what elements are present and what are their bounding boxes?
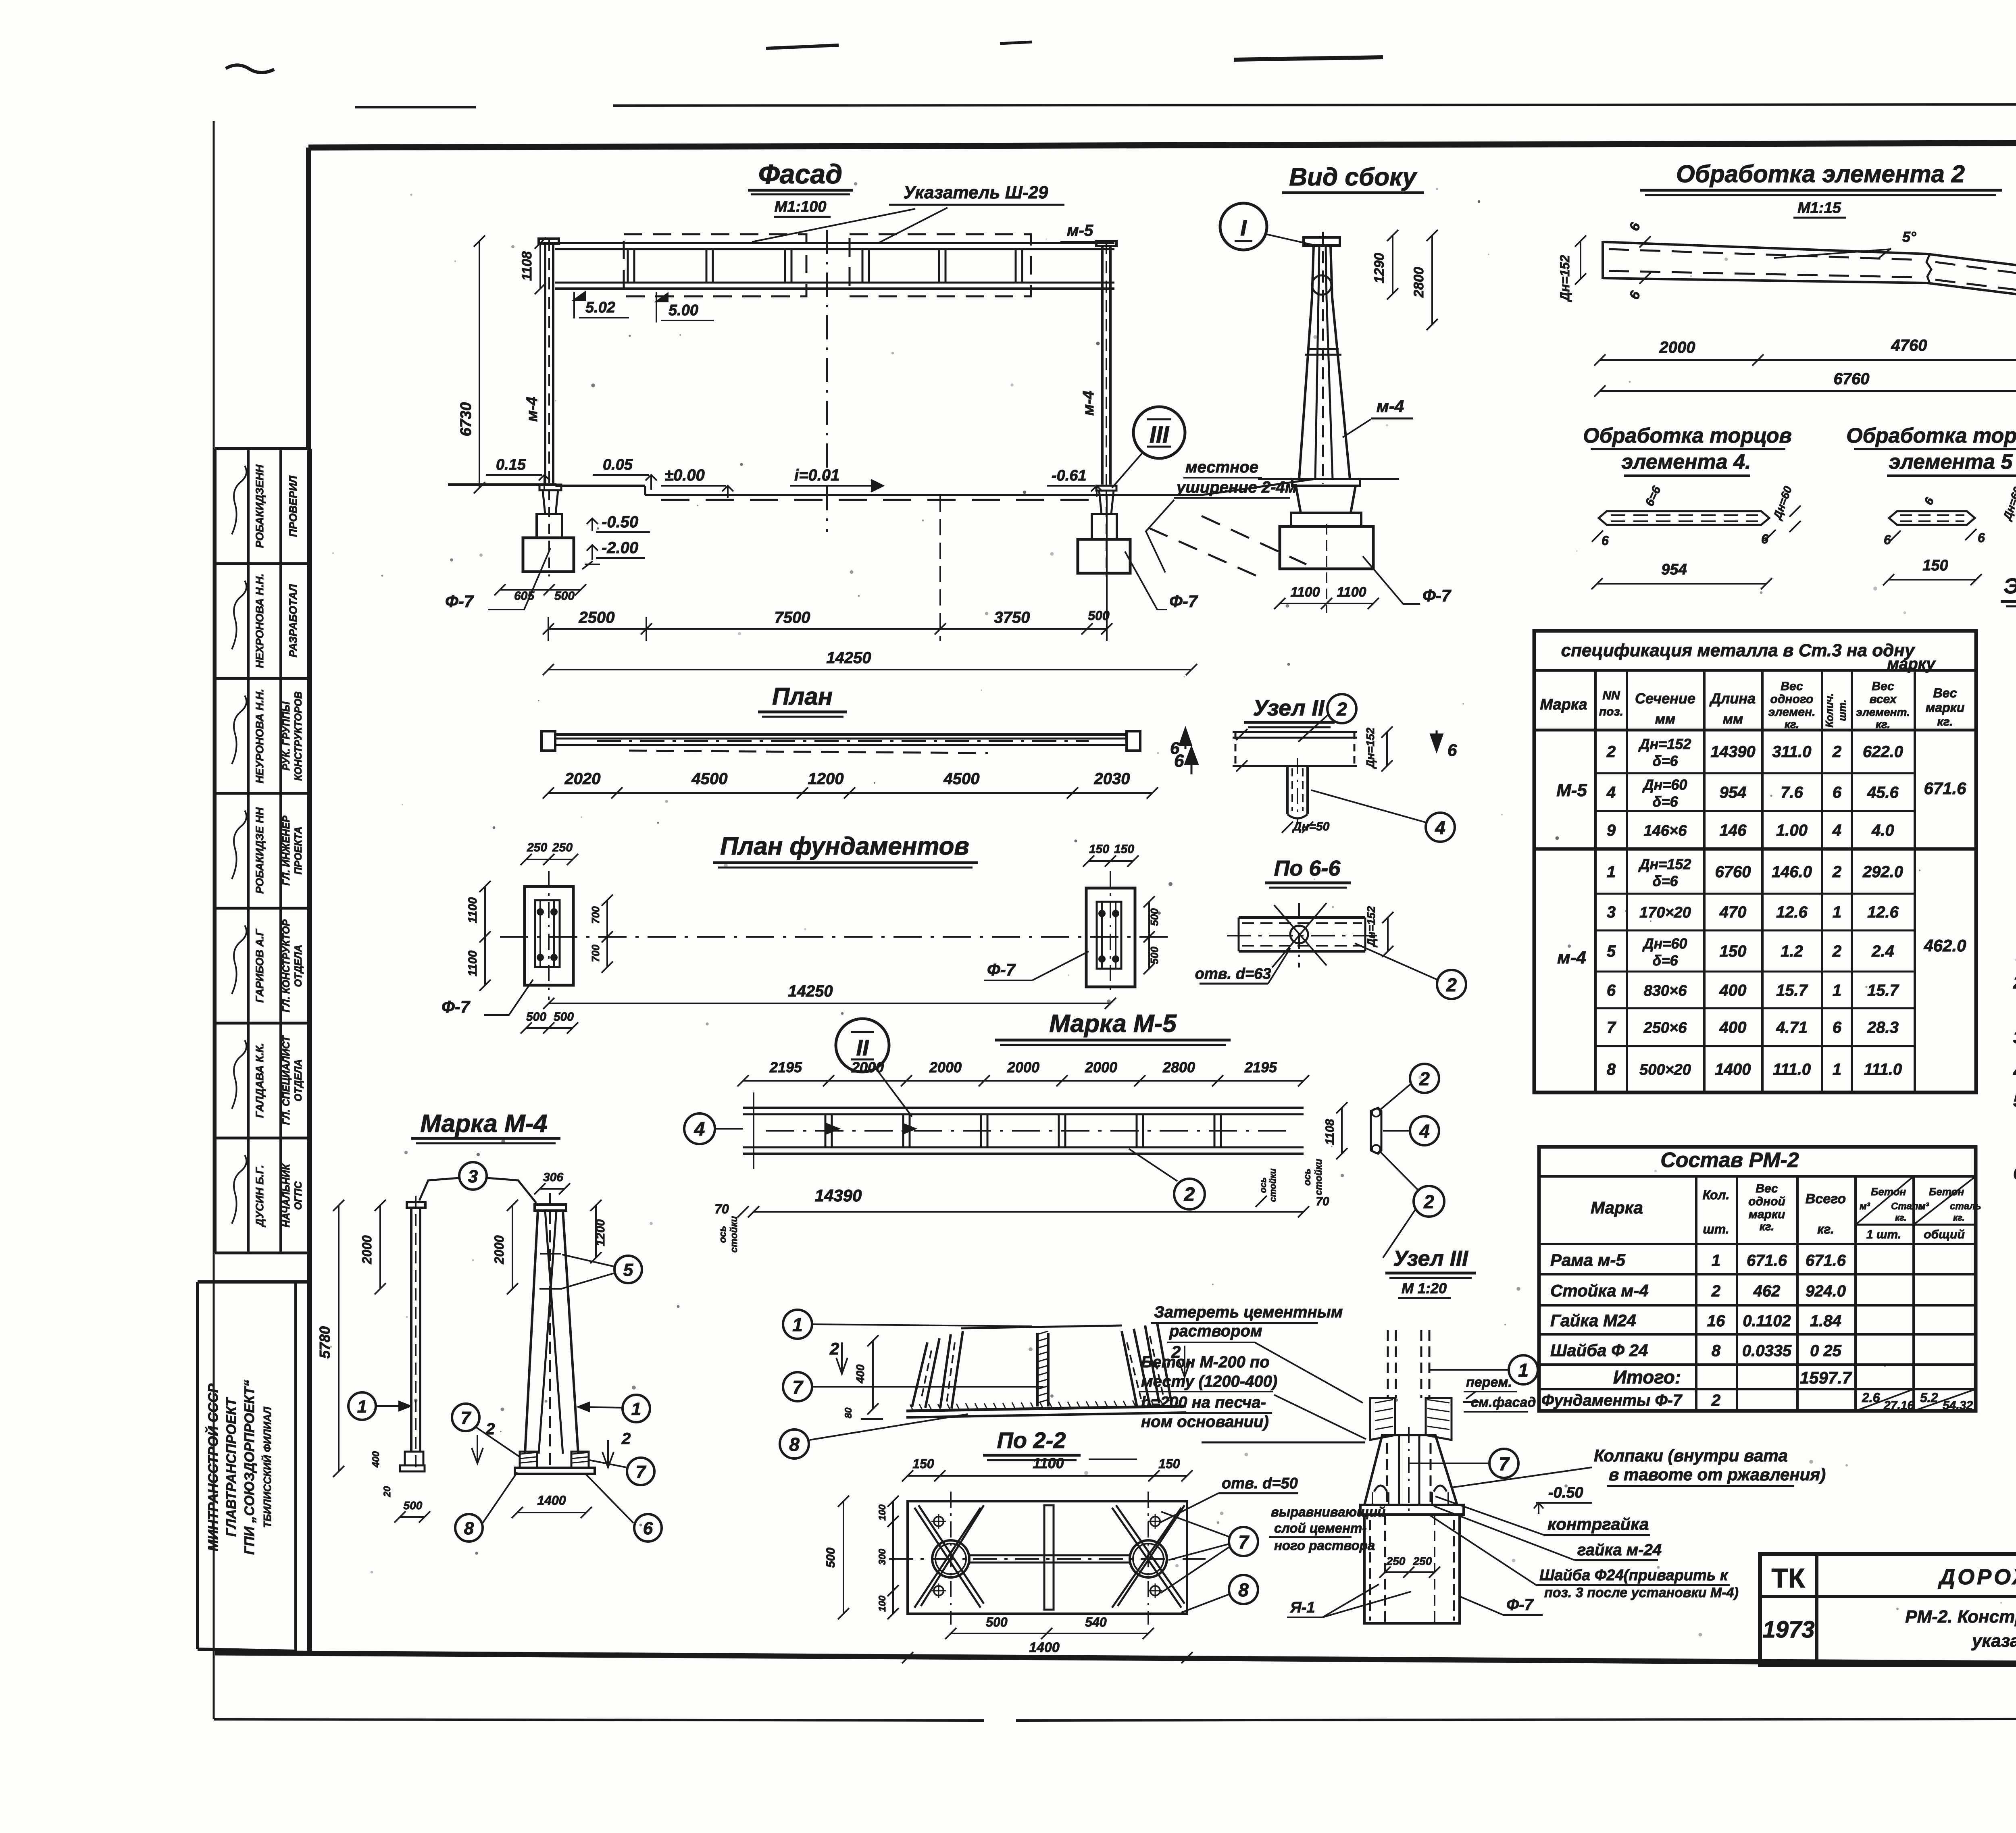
svg-text:8: 8: [789, 1434, 800, 1455]
facade dim row 2500 7500 3750 500: [548, 628, 1107, 630]
dims 700 700: [606, 900, 608, 967]
узел II stem tube: [1286, 766, 1289, 814]
svg-text:300: 300: [877, 1548, 888, 1565]
svg-text:0.15: 0.15: [496, 456, 526, 473]
svg-text:Дн=152: Дн=152: [1638, 856, 1691, 872]
svg-text:16: 16: [1707, 1312, 1725, 1330]
svg-text:Вес: Вес: [1756, 1182, 1778, 1195]
svg-text:500: 500: [554, 589, 575, 603]
dim 1290: [1392, 235, 1393, 294]
svg-text:Фасад: Фасад: [758, 159, 843, 189]
svg-text:δ=6: δ=6: [1652, 952, 1678, 969]
TITLE BLOCK: [1760, 1554, 2016, 1665]
svg-text:Всего: Всего: [1806, 1191, 1846, 1207]
level mark 5.02: [574, 292, 585, 318]
svg-text:ГЛ. КОНСТРУКТОР: ГЛ. КОНСТРУКТОР: [281, 919, 292, 1012]
svg-text:выравнивающий: выравнивающий: [1271, 1504, 1385, 1519]
diagonals X right: [1112, 1508, 1181, 1608]
svg-text:6: 6: [643, 1519, 653, 1538]
svg-text:Вид сбоку: Вид сбоку: [1289, 163, 1418, 191]
М-4 top node (anchor block elevation): [912, 1338, 939, 1408]
svg-text:-0.61: -0.61: [1052, 467, 1087, 484]
svg-text:8: 8: [1238, 1579, 1249, 1600]
svg-text:4: 4: [1435, 817, 1445, 838]
svg-text:ТБИЛИССКИЙ ФИЛИАЛ: ТБИЛИССКИЙ ФИЛИАЛ: [261, 1406, 273, 1528]
svg-text:Я-1: Я-1: [1290, 1599, 1315, 1616]
svg-text:в тавоте от ржавления): в тавоте от ржавления): [1609, 1465, 1826, 1484]
svg-text:14250: 14250: [788, 982, 833, 1000]
svg-text:100: 100: [877, 1504, 888, 1521]
svg-text:1973: 1973: [1762, 1617, 1814, 1643]
М-4 single post (поз 1): [407, 1202, 425, 1208]
svg-text:6: 6: [1602, 533, 1609, 548]
svg-text:мм: мм: [1723, 712, 1743, 727]
svg-text:1100: 1100: [466, 950, 479, 976]
svg-text:2: 2: [829, 1339, 839, 1358]
svg-text:1100: 1100: [1290, 585, 1320, 600]
svg-text:5780: 5780: [317, 1326, 333, 1359]
svg-text:НЕХРОНОВА Н.Н.: НЕХРОНОВА Н.Н.: [254, 574, 266, 668]
svg-text:ось: ось: [1258, 1178, 1268, 1193]
svg-text:ось: ось: [1302, 1169, 1313, 1186]
svg-text:150: 150: [1720, 943, 1747, 960]
svg-text:671.6: 671.6: [1806, 1252, 1846, 1269]
circled 2 below: [1174, 1179, 1205, 1209]
svg-text:2. Сварку элементов производ: 2. Сварку элементов производить: [2013, 973, 2016, 992]
svg-text:0 25: 0 25: [1810, 1342, 1842, 1360]
circled 4 left: [684, 1113, 715, 1144]
svg-text:954: 954: [1720, 784, 1747, 801]
circled 8 right: [1229, 1575, 1258, 1604]
svg-text:250: 250: [1386, 1555, 1406, 1567]
svg-text:Дн=152: Дн=152: [1638, 736, 1691, 752]
svg-text:2800: 2800: [1411, 267, 1427, 298]
svg-text:кг.: кг.: [1937, 715, 1953, 728]
svg-text:ГПИ „СОЮЗДОРПРОЕКТ“: ГПИ „СОЮЗДОРПРОЕКТ“: [242, 1380, 257, 1555]
svg-text:2000: 2000: [929, 1059, 962, 1076]
svg-text:кг.: кг.: [1785, 718, 1799, 730]
svg-text:2500: 2500: [579, 609, 615, 626]
dim 2000 middle: [512, 1205, 513, 1289]
base plate: [1360, 1505, 1464, 1515]
circled 7 right: [627, 1458, 654, 1485]
svg-text:27.16: 27.16: [1883, 1399, 1914, 1412]
узел II plate: [1233, 731, 1357, 733]
svg-text:2: 2: [1711, 1282, 1720, 1300]
middle vertical bar: [1044, 1505, 1054, 1610]
node mark III: [1133, 407, 1185, 458]
svg-text:7: 7: [792, 1377, 804, 1398]
svg-text:2: 2: [1336, 699, 1347, 720]
svg-text:5: 5: [623, 1260, 633, 1280]
svg-text:указательных знаков.: указательных знаков.: [1971, 1631, 2016, 1651]
svg-text:2030: 2030: [1094, 770, 1130, 788]
svg-text:500: 500: [824, 1548, 837, 1568]
svg-text:5.00: 5.00: [669, 302, 698, 319]
circled 7: [1489, 1449, 1518, 1478]
dims 100 300 100: [892, 1501, 894, 1614]
svg-text:170×20: 170×20: [1639, 904, 1691, 921]
svg-text:1: 1: [792, 1314, 803, 1335]
svg-text:Колпаки (внутри вата: Колпаки (внутри вата: [1594, 1446, 1788, 1465]
svg-text:МИНТРАНССТРОЙ СССР: МИНТРАНССТРОЙ СССР: [205, 1384, 221, 1551]
svg-text:2: 2: [1171, 1342, 1181, 1361]
svg-text:ГЛ. СПЕЦИАЛИСТ: ГЛ. СПЕЦИАЛИСТ: [281, 1035, 292, 1125]
svg-text:см.фасад: см.фасад: [1471, 1395, 1536, 1410]
element 4 bar: [1599, 511, 1769, 525]
svg-text:2: 2: [1832, 743, 1841, 761]
anchor blocks & base plate: [520, 1452, 537, 1468]
dim 1200 right: [595, 1205, 597, 1258]
svg-text:КОНСТРУКТОРОВ: КОНСТРУКТОРОВ: [293, 691, 304, 781]
svg-text:Ф-7: Ф-7: [445, 592, 474, 611]
svg-text:Стойка м-4: Стойка м-4: [1550, 1281, 1649, 1300]
svg-text:1: 1: [1833, 903, 1841, 921]
svg-text:605: 605: [514, 589, 535, 603]
svg-text:м³: м³: [1918, 1201, 1929, 1212]
М-5 dim row 2195 2000x5 2195: [743, 1080, 1304, 1082]
left foundation plan: [525, 886, 573, 985]
svg-text:ГЛ. ИНЖЕНЕР: ГЛ. ИНЖЕНЕР: [281, 816, 292, 886]
dim 250 250 in pedestal: [1385, 1571, 1435, 1573]
svg-text:1: 1: [357, 1397, 367, 1417]
svg-text:306: 306: [543, 1171, 563, 1184]
svg-text:δ=6: δ=6: [1652, 793, 1678, 810]
svg-text:6: 6: [1447, 741, 1457, 759]
svg-text:1: 1: [1607, 863, 1616, 881]
svg-text:3: 3: [1607, 903, 1616, 921]
facade right column М-4: [1101, 246, 1104, 485]
anchor plates hatched: [1370, 1398, 1395, 1440]
svg-text:2000: 2000: [1085, 1059, 1117, 1076]
svg-text:7500: 7500: [775, 609, 810, 626]
svg-text:ОТДЕЛА: ОТДЕЛА: [293, 945, 304, 987]
svg-text:2800: 2800: [1162, 1059, 1195, 1076]
svg-text:500: 500: [1148, 908, 1160, 926]
svg-text:80: 80: [843, 1407, 854, 1418]
svg-text:элемен.: элемен.: [1768, 705, 1816, 719]
svg-text:м³: м³: [1860, 1201, 1870, 1212]
svg-text:500: 500: [554, 1010, 574, 1024]
svg-text:1290: 1290: [1372, 253, 1387, 283]
svg-text:План фундаментов: План фундаментов: [720, 832, 969, 860]
svg-text:II: II: [856, 1035, 869, 1060]
svg-text:кг.: кг.: [1876, 718, 1891, 730]
svg-text:Шайба Ф24(приварить к: Шайба Ф24(приварить к: [1539, 1567, 1729, 1584]
svg-text:1.00: 1.00: [1776, 822, 1808, 839]
svg-text:Бетон М-200 по: Бетон М-200 по: [1141, 1353, 1270, 1371]
svg-text:924.0: 924.0: [1806, 1282, 1846, 1300]
по 6-6 tube: [1239, 916, 1365, 919]
svg-text:5.02: 5.02: [585, 299, 615, 316]
svg-text:стойки: стойки: [729, 1216, 739, 1253]
svg-text:150: 150: [1922, 557, 1948, 574]
stamp block (left title column): [215, 447, 310, 450]
svg-text:470: 470: [1719, 903, 1747, 921]
svg-text:150: 150: [1114, 843, 1134, 856]
centerlines: [889, 1558, 1206, 1560]
svg-text:2000: 2000: [360, 1235, 374, 1264]
svg-text:1 шт.: 1 шт.: [1866, 1228, 1901, 1241]
svg-text:Узел III: Узел III: [1393, 1246, 1468, 1271]
dim 14250 foundation plan: [549, 1003, 1110, 1004]
svg-text:стойки: стойки: [1313, 1159, 1324, 1195]
svg-text:4760: 4760: [1891, 337, 1927, 354]
СОСТАВ РМ-2 TABLE: [1539, 1147, 1976, 1411]
org block МИНТРАНССТРОЙ: [198, 1280, 310, 1284]
svg-text:250: 250: [527, 841, 547, 854]
svg-text:622.0: 622.0: [1863, 743, 1903, 761]
svg-text:4500: 4500: [691, 770, 728, 788]
level -2.00: [587, 545, 598, 560]
svg-text:1400: 1400: [1029, 1640, 1060, 1655]
bolt holes: [934, 1517, 943, 1526]
svg-text:одного: одного: [1770, 693, 1814, 706]
circled 8: [455, 1514, 483, 1542]
element 4 capsule right of beam: [1371, 1108, 1381, 1154]
svg-text:элемент.: элемент.: [1856, 706, 1910, 718]
svg-text:54.32: 54.32: [1943, 1399, 1973, 1412]
svg-text:6760: 6760: [1715, 863, 1751, 881]
dim 500: [400, 1516, 425, 1518]
node mark II: [836, 1019, 889, 1072]
svg-text:146×6: 146×6: [1644, 822, 1687, 839]
svg-text:1400: 1400: [537, 1493, 566, 1508]
facade beam М-5 truss: [555, 242, 1114, 244]
svg-text:1: 1: [1833, 982, 1841, 999]
svg-text:м-5: м-5: [1067, 222, 1093, 239]
svg-text:Марка М-4: Марка М-4: [420, 1110, 547, 1138]
dims 500 500 below: [526, 1027, 573, 1029]
svg-text:Бетон: Бетон: [1929, 1186, 1964, 1198]
pedestal: [1364, 1515, 1460, 1623]
circled 7 right: [1229, 1527, 1258, 1556]
svg-text:стойки: стойки: [1268, 1168, 1278, 1202]
svg-text:250×6: 250×6: [1643, 1019, 1687, 1036]
svg-text:100: 100: [877, 1595, 888, 1612]
svg-text:Ф-7: Ф-7: [1422, 586, 1452, 605]
svg-text:РОБАКИДЗЕНН: РОБАКИДЗЕНН: [254, 464, 266, 548]
dim 6730: [479, 241, 480, 488]
svg-text:ОТДЕЛА: ОТДЕЛА: [293, 1059, 304, 1102]
svg-text:500: 500: [986, 1615, 1008, 1629]
svg-text:Длина: Длина: [1709, 690, 1756, 707]
svg-text:Бетон: Бетон: [1871, 1186, 1906, 1198]
svg-text:146.0: 146.0: [1772, 863, 1812, 881]
svg-text:7.6: 7.6: [1781, 784, 1803, 801]
svg-text:Марка: Марка: [1591, 1198, 1643, 1217]
svg-text:м-4: м-4: [524, 397, 541, 422]
level mark 5.00: [656, 292, 668, 322]
svg-text:ГЛАВТРАНСПРОЕКТ: ГЛАВТРАНСПРОЕКТ: [224, 1397, 239, 1537]
svg-text:Элемент 9: Элемент 9: [2004, 574, 2016, 598]
svg-text:6760: 6760: [1834, 370, 1870, 388]
svg-text:ГАЛДАВА К.К.: ГАЛДАВА К.К.: [254, 1043, 266, 1118]
svg-text:контргайка: контргайка: [1547, 1515, 1649, 1533]
svg-text:спецификация металла в Ст.3 на: спецификация металла в Ст.3 на одну: [1561, 641, 1916, 660]
svg-text:РАЗРАБОТАЛ: РАЗРАБОТАЛ: [287, 584, 299, 657]
leg inner crossing left: [539, 1211, 556, 1454]
svg-text:Дн=152: Дн=152: [1364, 727, 1377, 769]
svg-text:м-4: м-4: [1557, 948, 1586, 967]
svg-text:150: 150: [912, 1456, 934, 1471]
svg-text:7: 7: [1238, 1531, 1250, 1552]
svg-text:По 2-2: По 2-2: [997, 1427, 1066, 1453]
svg-text:3750: 3750: [994, 609, 1030, 626]
svg-text:Дн=60: Дн=60: [1642, 935, 1687, 952]
svg-text:14250: 14250: [826, 649, 871, 667]
dim 2800: [1431, 235, 1433, 325]
svg-text:III: III: [1150, 422, 1170, 448]
svg-text:ПРОВЕРИЛ: ПРОВЕРИЛ: [287, 475, 299, 537]
svg-text:ГАРИБОВ А.Г: ГАРИБОВ А.Г: [254, 928, 266, 1003]
svg-text:ном основании): ном основании): [1141, 1413, 1269, 1431]
svg-text:Состав РМ-2: Состав РМ-2: [1660, 1148, 1799, 1172]
dim 1100 1100 under side foundation: [1280, 603, 1373, 604]
svg-text:гайка м-24: гайка м-24: [1577, 1541, 1662, 1559]
svg-text:По 6-6: По 6-6: [1274, 856, 1341, 880]
svg-text:2000: 2000: [1659, 339, 1695, 356]
svg-text:ПРОЕКТА: ПРОЕКТА: [293, 827, 304, 875]
svg-text:мм: мм: [1655, 712, 1675, 727]
sign board 1 (dashed): [624, 234, 806, 296]
svg-text:292.0: 292.0: [1862, 863, 1903, 881]
facade dim 14250: [548, 669, 1191, 670]
svg-text:местное: местное: [1185, 458, 1258, 476]
dim 5780: [338, 1205, 339, 1471]
svg-text:ДУСИН Б.Г.: ДУСИН Б.Г.: [254, 1165, 266, 1228]
circled 2: [1327, 694, 1356, 723]
М-4 tapered column (front): [535, 1205, 566, 1211]
svg-text:8: 8: [1607, 1061, 1616, 1078]
svg-text:1.84: 1.84: [1810, 1312, 1841, 1330]
svg-text:2: 2: [1832, 943, 1841, 960]
svg-text:4: 4: [1832, 822, 1841, 839]
svg-text:1: 1: [1518, 1360, 1529, 1381]
leg inner crossing right: [545, 1211, 563, 1454]
svg-text:6: 6: [1607, 982, 1616, 999]
svg-text:462: 462: [1753, 1282, 1781, 1300]
узел III anchor bolts: [1387, 1330, 1389, 1398]
svg-text:400: 400: [1719, 1019, 1747, 1036]
svg-text:500: 500: [404, 1499, 423, 1512]
svg-text:1: 1: [631, 1399, 641, 1419]
circled 1 left: [348, 1392, 376, 1420]
svg-text:1108: 1108: [1323, 1119, 1337, 1145]
по 2-2 plate: [908, 1501, 1187, 1614]
svg-text:Рама м-5: Рама м-5: [1550, 1250, 1626, 1269]
svg-text:Гайка М24: Гайка М24: [1550, 1311, 1636, 1330]
svg-text:РМ-2. Конструкция рамы для: РМ-2. Конструкция рамы для навески: [1905, 1607, 2016, 1627]
svg-text:111.0: 111.0: [1773, 1061, 1811, 1078]
svg-text:6: 6: [1833, 784, 1842, 801]
svg-text:НАЧАЛЬНИК: НАЧАЛЬНИК: [281, 1163, 292, 1228]
road widening dashes: [1202, 479, 1315, 495]
svg-text:м-4: м-4: [1377, 397, 1404, 416]
node mark I: [1220, 203, 1267, 250]
svg-text:всех: всех: [1869, 693, 1897, 706]
svg-text:Итого:: Итого:: [1613, 1367, 1681, 1388]
svg-text:4: 4: [1419, 1121, 1430, 1142]
dims 150 150 right: [1089, 860, 1133, 862]
svg-text:Ф-7: Ф-7: [1506, 1596, 1534, 1614]
svg-text:уширение 2-4м: уширение 2-4м: [1176, 479, 1297, 496]
circled 4: [1426, 813, 1455, 842]
dims 500 500 right rotated: [1148, 902, 1150, 969]
svg-text:сталь: сталь: [1950, 1201, 1981, 1212]
svg-text:2: 2: [1711, 1392, 1720, 1409]
svg-text:Марка М-5: Марка М-5: [1049, 1010, 1177, 1038]
circled 7 left: [452, 1404, 479, 1431]
svg-text:1108: 1108: [519, 251, 535, 281]
circled 8 (по2-2 elev): [780, 1429, 809, 1458]
svg-text:элемента 5: элемента 5: [1889, 450, 2013, 474]
svg-text:шт.: шт.: [1703, 1222, 1729, 1236]
svg-text:500: 500: [526, 1010, 546, 1024]
circled 6: [634, 1514, 662, 1542]
svg-text:700: 700: [589, 906, 602, 924]
svg-text:2: 2: [621, 1430, 631, 1448]
svg-text:ТК: ТК: [1771, 1563, 1805, 1594]
section 6 arrow near plan: [1185, 748, 1198, 774]
svg-text:Ф-7: Ф-7: [1169, 592, 1198, 611]
element 2 bar: [1603, 241, 2016, 302]
svg-text:15.7: 15.7: [1867, 982, 1899, 999]
svg-text:6730: 6730: [458, 402, 475, 437]
leg outer left: [525, 1211, 538, 1454]
по 2-2 dims top: [908, 1475, 1187, 1477]
svg-text:2195: 2195: [1244, 1059, 1277, 1076]
svg-text:14390: 14390: [815, 1186, 862, 1205]
dim 500 left: [843, 1501, 844, 1614]
foundation Ф-7 right: [1096, 486, 1116, 491]
svg-text:Кол.: Кол.: [1703, 1188, 1730, 1202]
svg-text:Шайба Ф 24: Шайба Ф 24: [1550, 1341, 1648, 1360]
svg-text:ОГПС: ОГПС: [293, 1181, 304, 1210]
svg-text:8: 8: [1712, 1342, 1721, 1360]
svg-text:ДОРОЖНЫЕ ЗНАКИ: ДОРОЖНЫЕ ЗНАКИ: [1938, 1565, 2016, 1589]
svg-text:5.2: 5.2: [1920, 1390, 1938, 1405]
svg-text:1200: 1200: [594, 1219, 607, 1246]
svg-text:РОБАКИДЗЕ НН: РОБАКИДЗЕ НН: [254, 807, 266, 894]
svg-text:Обработка элемента 2: Обработка элемента 2: [1676, 160, 1965, 187]
svg-text:марки: марки: [1926, 700, 1965, 715]
scan specks: [1010, 383, 1014, 387]
svg-text:7: 7: [1607, 1019, 1616, 1036]
plan bar: [541, 731, 555, 751]
svg-text:4.0: 4.0: [1871, 822, 1894, 839]
svg-text:14390: 14390: [1710, 743, 1755, 761]
svg-text:δ=6: δ=6: [1652, 753, 1678, 769]
dim 2000 left: [379, 1205, 381, 1289]
svg-text:ного раствора: ного раствора: [1274, 1538, 1375, 1553]
svg-text:кг.: кг.: [1760, 1220, 1774, 1233]
svg-text:ось: ось: [717, 1226, 728, 1243]
svg-text:м-4: м-4: [1080, 391, 1097, 416]
svg-text:Затереть цементным: Затереть цементным: [1154, 1303, 1343, 1321]
svg-text:1: 1: [1712, 1252, 1720, 1269]
svg-text:70: 70: [1316, 1195, 1329, 1208]
dim 14390: [754, 1211, 1304, 1213]
svg-text:1.2: 1.2: [1781, 943, 1803, 960]
svg-text:150: 150: [1089, 843, 1109, 856]
узел II section mark 2 above: [1414, 1186, 1444, 1217]
tie 1: [540, 1253, 561, 1255]
circled 7 (по2-2 elev): [783, 1372, 812, 1401]
svg-text:Дн=152: Дн=152: [1365, 906, 1377, 947]
caps (колпаки) arcs: [1374, 1486, 1387, 1492]
svg-text:70: 70: [714, 1202, 729, 1216]
